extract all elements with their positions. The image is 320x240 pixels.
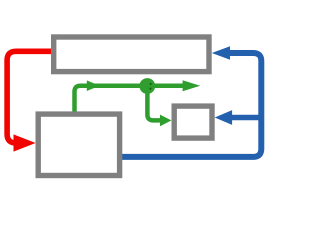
box: small middle-right block [174,106,212,138]
arrowhead red into lower-left box [14,134,36,151]
wire: red feedback path from top box left side down to lower-left box [7,51,51,151]
wire: green forward path from lower-left box top to the right [75,80,201,112]
arrowhead green mid-line [87,80,100,91]
arrowhead blue into small box [215,110,232,125]
arrowhead green into small box [160,115,171,127]
arrowhead green pointing right (end) [183,80,201,91]
arrowhead blue into top box right side [212,46,230,60]
box: top wide block [54,37,209,72]
box: lower-left block [38,114,119,175]
wire: blue return path from lower-left box right side, around to the right and up [122,46,261,157]
wire: blue branch into small box right side [215,110,262,125]
node: green junction dot [139,78,155,94]
wire: green branch from junction down into small box [147,90,171,126]
